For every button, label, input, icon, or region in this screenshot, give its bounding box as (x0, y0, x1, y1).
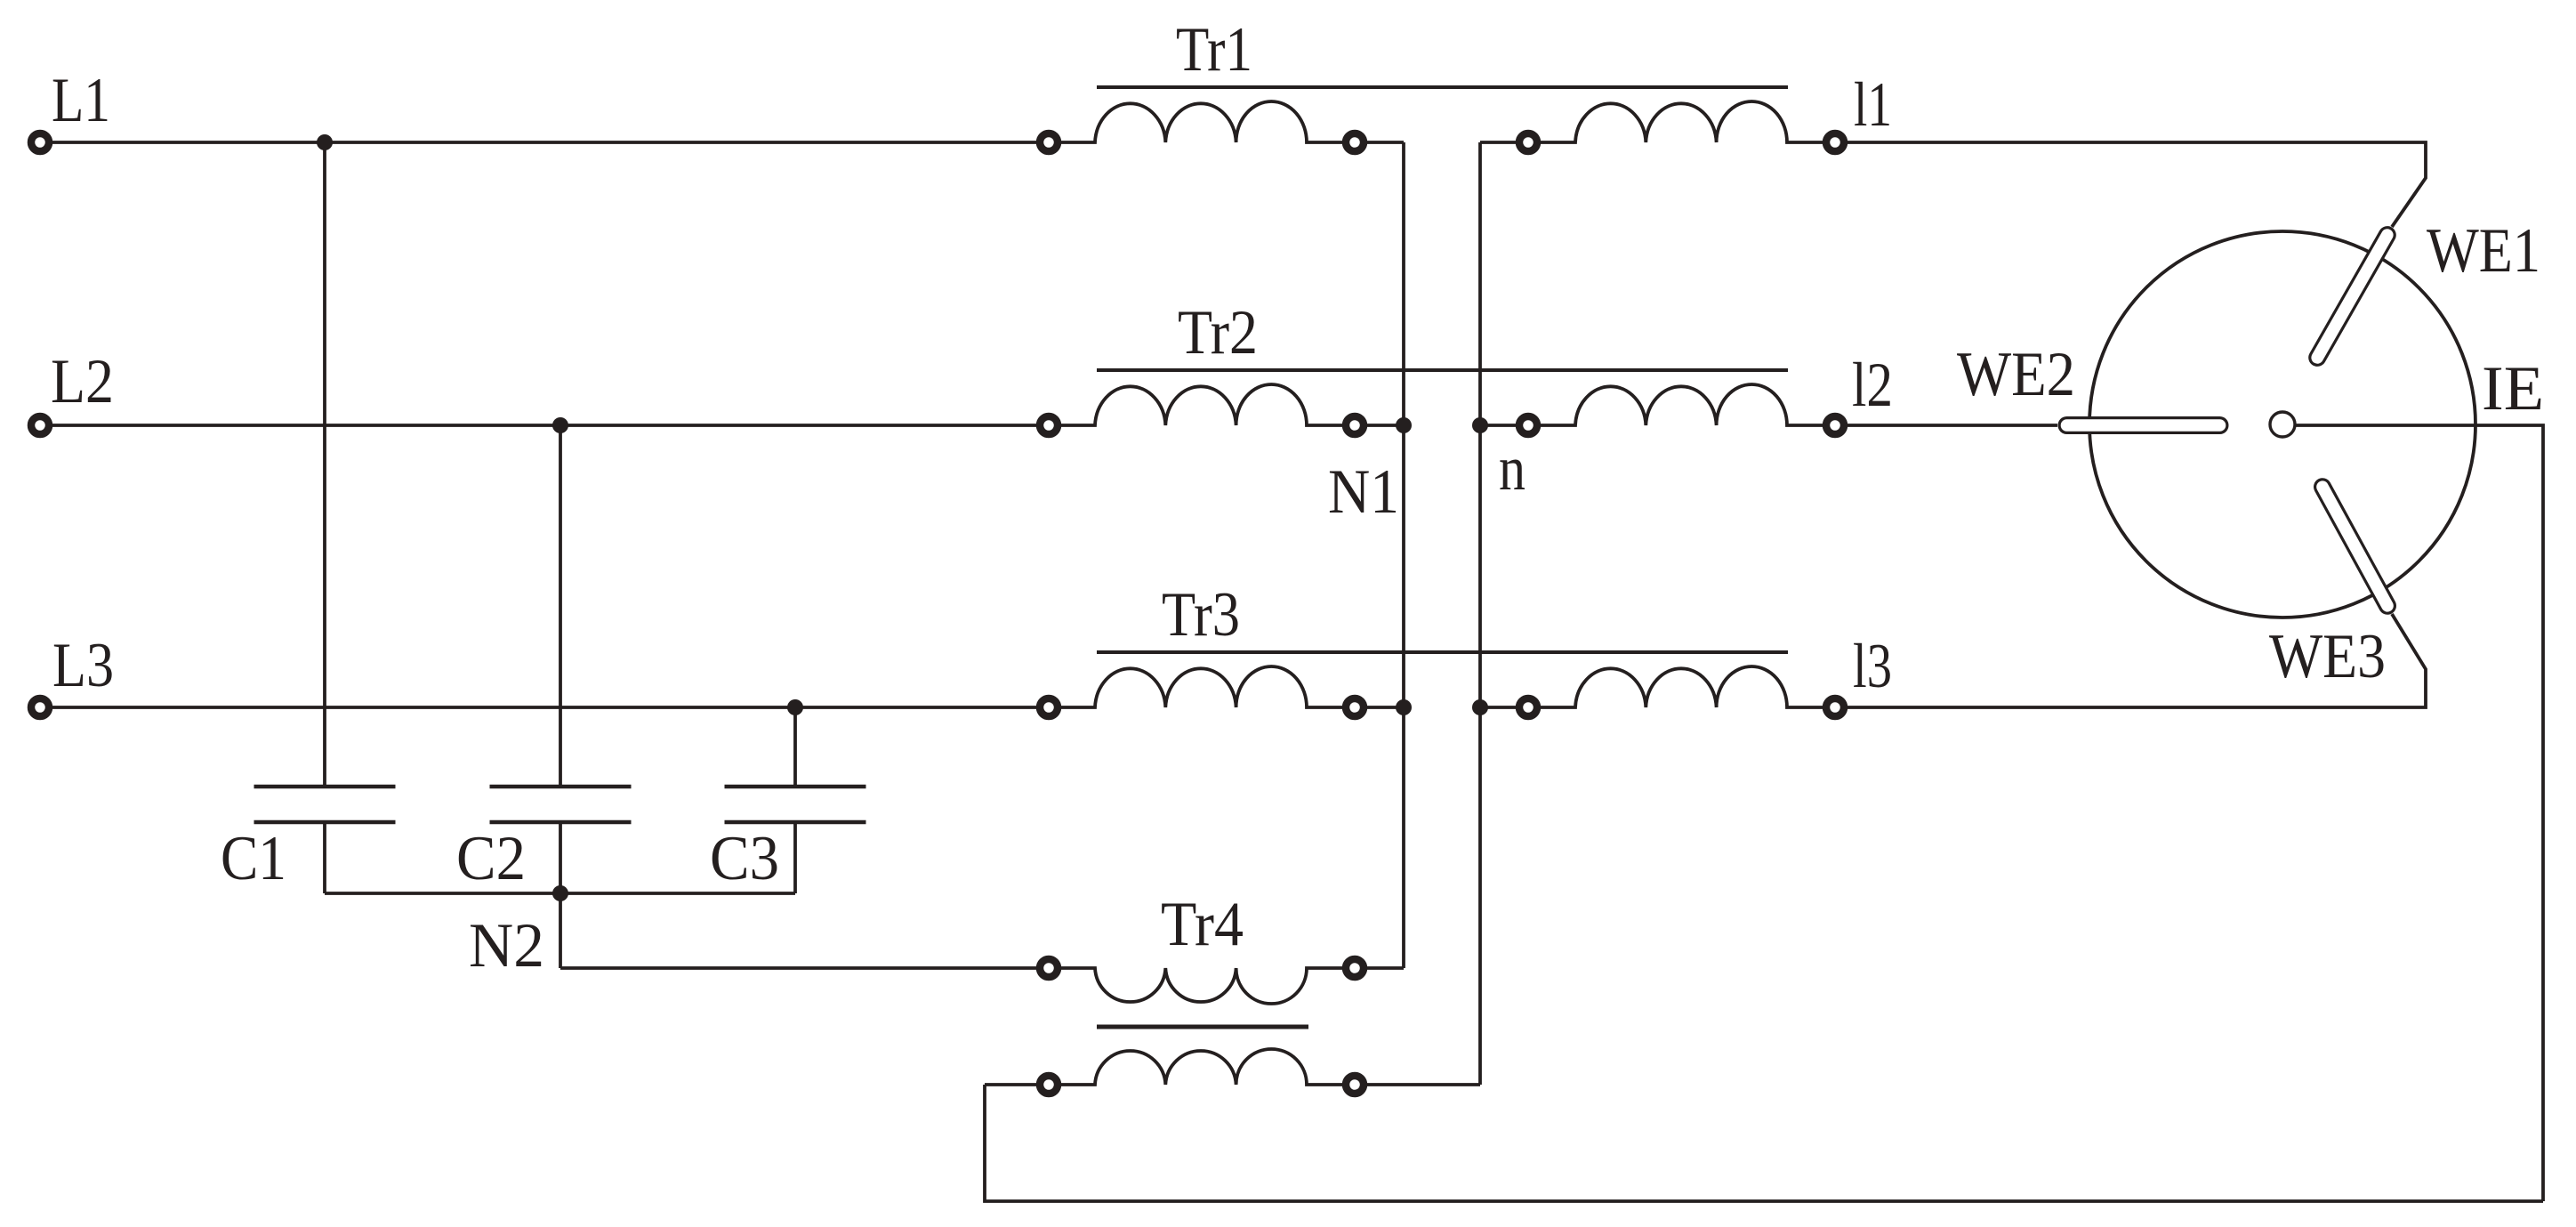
svg-text:n: n (1499, 434, 1525, 504)
svg-text:l1: l1 (1854, 70, 1892, 140)
svg-text:l3: l3 (1853, 632, 1892, 701)
svg-text:Tr4: Tr4 (1161, 890, 1244, 959)
svg-text:L1: L1 (52, 66, 110, 135)
svg-text:Tr2: Tr2 (1178, 298, 1258, 367)
svg-text:l2: l2 (1852, 351, 1893, 420)
svg-text:WE1: WE1 (2427, 216, 2540, 286)
svg-text:C3: C3 (710, 824, 779, 893)
svg-text:C2: C2 (456, 824, 526, 893)
svg-text:WE3: WE3 (2269, 622, 2386, 691)
svg-text:N1: N1 (1328, 457, 1399, 527)
svg-text:N2: N2 (469, 911, 544, 981)
svg-text:WE2: WE2 (1957, 340, 2075, 409)
svg-text:C1: C1 (221, 824, 286, 893)
svg-text:L3: L3 (52, 631, 114, 700)
svg-text:L2: L2 (51, 347, 114, 416)
svg-text:Tr3: Tr3 (1162, 580, 1240, 650)
svg-text:IE: IE (2482, 354, 2544, 424)
svg-text:Tr1: Tr1 (1176, 15, 1252, 85)
